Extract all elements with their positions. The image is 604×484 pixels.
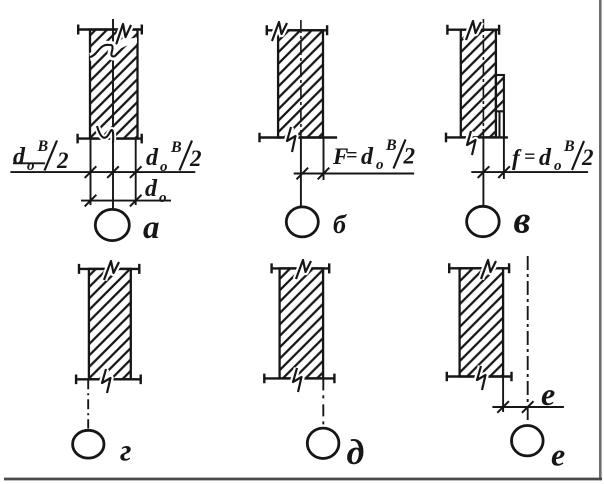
wall column A hatched body [90, 30, 138, 139]
dimension line F=d0B/2 [294, 168, 414, 180]
svg-text:е: е [541, 376, 555, 412]
dimension line e [492, 401, 564, 413]
pile circle A [95, 209, 129, 240]
pile axis long dash-dot E [527, 256, 529, 421]
dimension line d0 (lower) [81, 195, 171, 207]
extension line pilaster edge V [503, 111, 505, 179]
break mark bottom of wall G [102, 369, 111, 393]
svg-text:г: г [120, 433, 131, 468]
break mark bottom of wall V [467, 131, 476, 155]
wall A bottom cut line [77, 134, 141, 144]
svg-text:2: 2 [189, 146, 202, 171]
label letter e [551, 437, 565, 473]
pile circle G [73, 430, 104, 458]
pile axis dash-dot D [322, 378, 324, 428]
svg-text:d: d [145, 176, 158, 202]
svg-text:d: d [13, 144, 26, 170]
label letter a [143, 210, 160, 246]
wall V top cut line [447, 25, 499, 35]
extension line right edge B [323, 138, 325, 181]
svg-text:В: В [37, 138, 49, 155]
pile axis dash-dot G [87, 379, 89, 428]
label f=d0B/2 [512, 138, 594, 174]
pile circle V [467, 206, 500, 236]
wall A axis centerline [112, 19, 114, 208]
svg-text:o: o [27, 158, 35, 174]
break wave mid wall A [90, 41, 137, 58]
wall column D hatched body [280, 268, 324, 378]
wall E top cut line [449, 263, 509, 273]
svg-text:o: o [159, 190, 167, 206]
svg-text:е: е [551, 437, 565, 473]
svg-text:o: o [160, 159, 168, 175]
wall B bottom cut line [259, 133, 337, 143]
svg-text:а: а [143, 210, 160, 246]
break mark bottom of wall A [97, 126, 113, 143]
wall V axis centerline [482, 19, 484, 206]
wall column E hatched body [460, 268, 504, 376]
wall D top cut line [271, 263, 329, 273]
svg-text:=: = [346, 145, 357, 167]
scan shadow right border [599, 0, 602, 478]
label e dimension [541, 376, 555, 412]
label F=d0B/2 [332, 137, 415, 173]
label letter v [514, 200, 531, 242]
pile circle D [307, 428, 339, 458]
label d0B/2 right [146, 139, 202, 175]
svg-text:б: б [333, 210, 347, 239]
break mark top of wall G [104, 261, 119, 280]
break mark bottom of wall B [287, 127, 296, 152]
wall B axis centerline [300, 20, 302, 207]
svg-text:в: в [514, 200, 531, 242]
extension line right edge A [135, 139, 137, 205]
extension line left edge A [90, 139, 92, 205]
wall V pilaster lower edge lines [500, 111, 504, 137]
dimension line f=d0B/2 [471, 166, 588, 178]
wall column B hatched body [278, 30, 323, 137]
break mark bottom of wall D [293, 368, 302, 392]
break mark bottom of wall E [477, 366, 486, 390]
scan shadow bottom border [4, 478, 602, 481]
break mark top of wall B [272, 22, 287, 41]
wall D bottom cut line [264, 374, 335, 384]
svg-text:д: д [347, 432, 365, 472]
svg-text:d: d [539, 145, 552, 171]
wall A top cut line [78, 25, 142, 35]
svg-text:d: d [146, 145, 159, 171]
wall E bottom cut line [447, 372, 512, 382]
wall column G hatched body [89, 269, 131, 379]
break mark top of wall V [466, 21, 481, 40]
svg-text:В: В [170, 139, 182, 156]
svg-text:В: В [385, 137, 397, 154]
wall V pilaster bump hatched [496, 75, 504, 111]
extension line right edge E [502, 377, 504, 413]
wall B top cut line [267, 25, 328, 35]
svg-text:2: 2 [56, 148, 69, 173]
label d0B/2 left [13, 138, 69, 174]
pile circle B [286, 207, 318, 237]
svg-text:=: = [524, 146, 535, 168]
svg-text:2: 2 [581, 145, 594, 170]
wall G bottom cut line [76, 375, 141, 385]
break mark top of wall D [296, 260, 311, 279]
break mark top of wall E [481, 260, 496, 279]
break mark top of wall A [116, 24, 131, 45]
svg-text:В: В [563, 138, 575, 155]
svg-text:d: d [361, 144, 374, 170]
label d0 [145, 176, 167, 206]
label letter g [120, 433, 131, 468]
wall G top cut line [79, 264, 140, 274]
svg-text:2: 2 [403, 144, 416, 169]
svg-text:o: o [554, 158, 562, 174]
dimension line d0B/2 (upper) [10, 166, 195, 178]
pile circle E [512, 426, 544, 456]
label letter d [347, 432, 365, 472]
wall column V hatched body [461, 30, 496, 138]
svg-text:o: o [376, 157, 384, 173]
label letter b [333, 210, 347, 239]
wall V bottom cut line [446, 133, 508, 143]
